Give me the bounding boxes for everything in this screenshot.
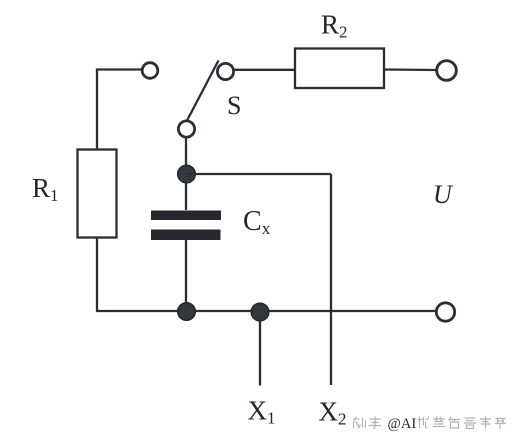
- terminal right (bottom): [436, 303, 454, 321]
- switch S bottom contact: [178, 121, 194, 137]
- wire node N3 to capacitor: [185, 182, 187, 210]
- svg-text:R1: R1: [32, 173, 59, 205]
- wire R2 to right terminal: [384, 68, 437, 71]
- switch S blade: [187, 61, 219, 121]
- wire X2: [330, 174, 332, 385]
- svg-text:S: S: [227, 91, 241, 120]
- capacitor Cx top plate: [151, 211, 221, 221]
- wire capacitor to node N1: [185, 240, 187, 303]
- wire node N3 up to switch: [185, 138, 187, 167]
- wire switch to R2: [234, 69, 296, 71]
- svg-text:@AI: @AI: [388, 416, 417, 432]
- svg-text:R2: R2: [321, 10, 348, 42]
- wire R1 bottom leg: [96, 238, 98, 312]
- svg-text:U: U: [433, 180, 454, 209]
- wire X1 stub: [259, 320, 261, 386]
- capacitor Cx bottom plate: [151, 230, 221, 241]
- wire R1 top to left terminal: [97, 70, 142, 151]
- resistor R2: [295, 49, 384, 89]
- node N2 junction: [251, 303, 269, 321]
- terminal right (top): [437, 61, 457, 81]
- svg-text:X2: X2: [319, 397, 347, 429]
- wire node N3 to X2 line: [186, 173, 331, 175]
- terminal left (top): [142, 63, 158, 79]
- switch S top contact: [217, 63, 233, 79]
- resistor R1: [78, 150, 117, 238]
- node N1 junction: [178, 303, 196, 321]
- node N3 junction: [178, 165, 196, 183]
- wire bottom bus: [96, 310, 437, 312]
- watermark zhihu: [354, 416, 507, 432]
- svg-text:X1: X1: [248, 396, 276, 428]
- svg-text:Cx: Cx: [243, 206, 271, 238]
